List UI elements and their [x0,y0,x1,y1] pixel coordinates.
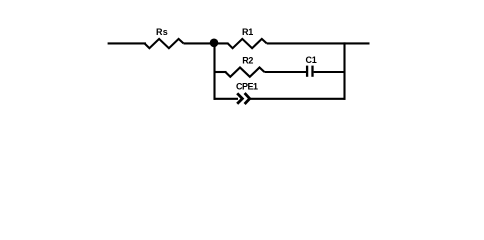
capacitor C1 left plate [306,66,308,77]
node junction dot [210,39,219,48]
wire R1 to right end [267,42,370,44]
svg-text:C1: C1 [306,55,317,65]
svg-text:CPE1: CPE1 [236,81,258,91]
wire right vertical [343,42,345,99]
CPE CPE1 chevron 1 [237,93,242,104]
resistor R2 [225,68,264,77]
wire left lead [108,42,146,44]
wire CPE1 to right vertical [250,98,346,100]
svg-text:R1: R1 [242,27,253,37]
wire C1 to right vertical [314,71,346,73]
wire left vertical [213,43,215,99]
resistor Rs [145,39,184,48]
svg-text:R2: R2 [242,55,253,65]
wire middle branch lead [214,71,227,73]
svg-text:Rs: Rs [156,27,168,37]
wire bottom branch lead [214,98,239,100]
wire Rs to R1 [184,42,229,44]
capacitor C1 right plate [311,66,313,77]
wire R2 to C1 [264,71,306,73]
CPE CPE1 chevron 2 [245,93,250,104]
resistor R1 [228,39,267,48]
